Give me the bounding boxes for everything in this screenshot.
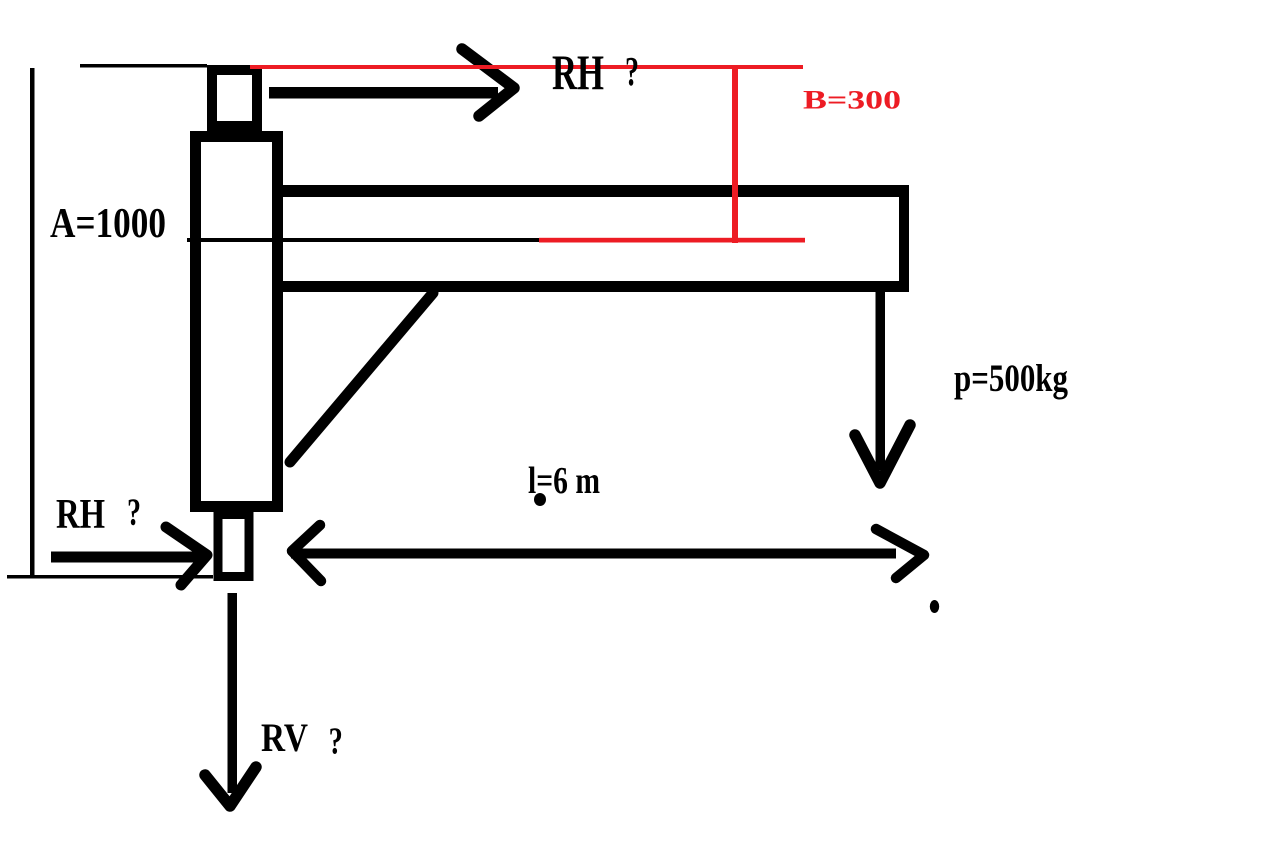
svg-text:l=6 m: l=6 m (528, 460, 600, 502)
svg-text:p=500kg: p=500kg (954, 356, 1068, 400)
svg-text:B=300: B=300 (803, 86, 901, 115)
svg-text:RV: RV (261, 715, 308, 760)
svg-text:RH: RH (56, 491, 105, 538)
svg-text:?: ? (625, 48, 639, 94)
svg-text:RH: RH (552, 44, 604, 100)
svg-text:?: ? (329, 721, 343, 763)
svg-text:?: ? (127, 490, 141, 534)
svg-text:A=1000: A=1000 (50, 200, 166, 247)
